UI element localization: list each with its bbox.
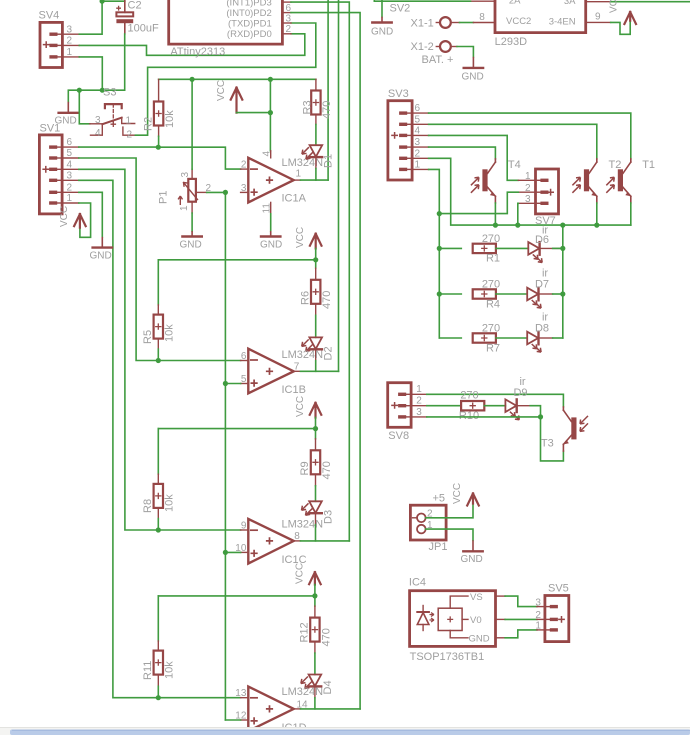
resistor R12 [299, 596, 333, 653]
wire VCC bus B [158, 259, 315, 261]
svg-text:D6: D6 [535, 234, 549, 246]
ground [260, 231, 282, 250]
ground [55, 102, 79, 127]
junction [268, 77, 273, 82]
svg-text:11: 11 [261, 203, 272, 214]
pin L293D 1A [471, 0, 496, 2]
wire p11 gnd [270, 214, 272, 231]
junction [313, 426, 318, 431]
wire row3 left [439, 337, 461, 339]
supply VCC [452, 483, 479, 506]
junction [437, 211, 442, 216]
IC IC4 TSOP1736 [409, 577, 496, 664]
wire R9-D3 [315, 486, 317, 502]
wire T3 emitter loop [541, 417, 564, 461]
svg-text:3: 3 [286, 14, 292, 25]
svg-text:V0: V0 [470, 615, 482, 626]
resistor R5 [142, 260, 176, 349]
wire P1 wiper [207, 191, 226, 193]
wire to IC1C in- [158, 529, 240, 531]
wire d8 join [553, 337, 563, 339]
transistor T2 [572, 159, 621, 203]
resistor R8 [142, 429, 176, 519]
connector JP1 [410, 493, 447, 554]
wire SV4-2 to PD0 [79, 34, 304, 56]
svg-text:4: 4 [261, 151, 272, 157]
pin IC1A p4 [261, 151, 272, 158]
wire VCC bus C [158, 428, 315, 430]
SV1 pin [62, 191, 79, 193]
wire GND to SV5-1 [505, 630, 537, 638]
resistor R3 [302, 79, 334, 124]
SV5 pin [537, 629, 545, 631]
wire D3 out [315, 525, 317, 541]
wire SV3-2 emitter bus [429, 158, 631, 225]
svg-text:2: 2 [127, 130, 133, 141]
SV8 pin [411, 393, 427, 395]
SV1 pin [62, 168, 79, 170]
svg-text:GND: GND [462, 72, 484, 83]
resistor R7 [473, 323, 500, 355]
terminal X1-2 [411, 41, 458, 66]
wire in+ stub [225, 383, 240, 385]
svg-text:270: 270 [482, 279, 500, 291]
ground [180, 231, 202, 250]
svg-text:270: 270 [482, 233, 500, 245]
pin IC1C out [294, 540, 301, 542]
wire T2 emitter [596, 203, 598, 225]
wire SV2 gnd [381, 0, 383, 17]
junction [190, 77, 195, 82]
junction [268, 110, 273, 115]
supply VCC [295, 227, 322, 249]
svg-text:LM324N: LM324N [282, 519, 324, 531]
wire R10-D9 [484, 405, 505, 407]
wire SV3-3 to T4 [429, 147, 496, 159]
SV1 pin [62, 202, 79, 204]
diode D8 [527, 312, 549, 353]
wire D7 cathode [539, 293, 553, 295]
wire in+ stub [225, 551, 240, 553]
wire T4 emitter [494, 203, 496, 225]
junction [156, 145, 161, 150]
connector SV3 [388, 88, 421, 180]
transistor T3 [541, 407, 588, 451]
pin IC1C in- [241, 529, 249, 531]
junction [223, 190, 228, 195]
pin L293D 9 [586, 12, 611, 23]
wire SV4-1 down [79, 57, 102, 90]
wire JP1-1 gnd [426, 529, 473, 540]
SV3 pin [412, 168, 429, 170]
svg-text:T4: T4 [508, 159, 521, 171]
wire R12-D4 [314, 653, 316, 674]
svg-text:VS: VS [470, 592, 483, 603]
wire d6 join [553, 247, 563, 249]
svg-text:1: 1 [179, 205, 190, 211]
svg-text:470: 470 [320, 628, 332, 646]
svg-text:BAT. +: BAT. + [422, 54, 454, 66]
wire vcc stem [314, 585, 316, 596]
wire VCC jog [237, 112, 271, 114]
wire VCC to IC1A pwr [269, 79, 271, 151]
connector SV5 [535, 583, 568, 642]
svg-text:IC4: IC4 [409, 577, 426, 589]
svg-text:SV1: SV1 [40, 123, 61, 135]
svg-text:T1: T1 [642, 159, 655, 171]
bus IC1B out [338, 0, 340, 371]
svg-text:TSOP1736TB1: TSOP1736TB1 [410, 651, 485, 663]
SV1 pin [62, 146, 79, 148]
SV5 pin [537, 606, 545, 608]
supply VCC [59, 206, 86, 228]
svg-text:R2: R2 [143, 117, 155, 131]
wire + bus down [224, 192, 226, 720]
junction [156, 358, 161, 363]
svg-text:C2: C2 [128, 0, 142, 12]
svg-text:JP1: JP1 [429, 541, 448, 553]
svg-text:ATtiny2313: ATtiny2313 [170, 46, 225, 58]
wire PD2 to IC1D bus [291, 13, 360, 709]
svg-text:L293D: L293D [495, 36, 527, 48]
svg-text:D2: D2 [323, 346, 335, 360]
junction [100, 0, 105, 4]
wire R7-D8 [496, 337, 527, 339]
pin IC1A out [294, 179, 301, 181]
wire pin9 vcc [611, 21, 631, 35]
wire VCC bus D [158, 595, 315, 597]
svg-text:R6: R6 [299, 291, 311, 305]
wire D9 to dot [530, 406, 540, 417]
svg-text:3A: 3A [564, 0, 576, 7]
transistor T1 [606, 159, 655, 203]
svg-text:VCC: VCC [452, 483, 463, 504]
pin IC1D out [294, 708, 301, 710]
wire SV1-3 bus [79, 180, 159, 697]
svg-text:10k: 10k [164, 494, 176, 512]
pin IC1B out [294, 370, 301, 372]
svg-text:470: 470 [321, 101, 333, 119]
wire row2 left [439, 293, 461, 295]
wire SV1-1 VCC loop [79, 203, 91, 237]
svg-text:VCC: VCC [295, 227, 306, 248]
pin L293D 3A [586, 1, 611, 3]
resistor R4 [473, 279, 500, 311]
wire vcc stem [315, 418, 317, 429]
wire SV3-6 to T1 [429, 113, 631, 159]
svg-text:LM324N: LM324N [282, 686, 324, 698]
svg-text:IC1A: IC1A [282, 193, 307, 205]
svg-text:T2: T2 [609, 159, 622, 171]
wire d7 join [553, 293, 563, 295]
ground [461, 540, 483, 565]
junction [437, 246, 442, 251]
wire 3A right [611, 1, 690, 3]
wire R2 bottom [158, 136, 160, 147]
wire P1 top [191, 79, 193, 169]
svg-text:D3: D3 [323, 510, 335, 524]
svg-text:T3: T3 [541, 438, 554, 450]
svg-text:X1-2: X1-2 [411, 41, 434, 53]
wire D9 cathode [517, 405, 531, 407]
diode D7 [527, 268, 549, 309]
svg-text:(INT0)PD2: (INT0)PD2 [226, 8, 271, 19]
wire to IC1B in- [158, 360, 240, 362]
transistor T4 [471, 159, 521, 203]
svg-text:R12: R12 [299, 622, 311, 642]
svg-text:VCC: VCC [295, 396, 306, 417]
pin IC4 GND [496, 637, 506, 639]
svg-text:270: 270 [460, 390, 478, 402]
pin IC4 VS [496, 595, 506, 597]
svg-text:LM324N: LM324N [282, 157, 324, 169]
svg-text:VCC: VCC [609, 0, 620, 13]
svg-text:(RXD)PD0: (RXD)PD0 [227, 29, 272, 40]
pin IC1A in- [241, 168, 249, 170]
IC4 internal V0 [462, 615, 482, 626]
svg-text:R9: R9 [299, 461, 311, 475]
IC4 internal VS [450, 592, 482, 608]
wire SV3-4 to SV7-1 [429, 135, 519, 180]
wire X1-1 to pin8 [460, 22, 474, 24]
svg-text:R11: R11 [142, 661, 154, 680]
svg-text:R5: R5 [142, 330, 154, 344]
svg-text:270: 270 [482, 323, 500, 335]
wire S3 net [68, 90, 124, 102]
resistor R10 [461, 401, 484, 410]
svg-text:(TXD)PD1: (TXD)PD1 [228, 18, 272, 29]
junction [437, 291, 442, 296]
terminal X1-1 [411, 17, 460, 29]
SV7 pin [518, 179, 535, 181]
wire SV7-2 [439, 192, 518, 213]
bus IC1A out [327, 0, 329, 180]
svg-text:10k: 10k [164, 661, 176, 679]
svg-text:470: 470 [321, 291, 333, 309]
wire R1-D6 [496, 247, 528, 249]
junction [156, 695, 161, 700]
svg-text:D8: D8 [535, 323, 549, 335]
wire SV8-2 to R10 [427, 405, 461, 407]
wire stub up [101, 0, 103, 1]
photodiode in IC4 [417, 606, 434, 631]
connector SV1 [39, 123, 72, 214]
svg-text:X1-1: X1-1 [411, 17, 434, 29]
wire T1 emitter [630, 203, 632, 225]
svg-text:8: 8 [479, 12, 485, 23]
op-amp IC1C [235, 519, 323, 567]
svg-text:2: 2 [286, 24, 292, 35]
junction [560, 246, 565, 251]
svg-text:SV2: SV2 [390, 3, 411, 15]
wire SV3-5 to T2 [429, 124, 597, 159]
resistor R2 [143, 79, 177, 136]
svg-text:D7: D7 [535, 279, 549, 291]
LED D4 [301, 675, 334, 698]
svg-text:R4: R4 [486, 299, 500, 311]
SV4 pin 1 [62, 56, 79, 58]
junction [223, 550, 228, 555]
switch S3 [90, 87, 136, 141]
svg-text:SV5: SV5 [548, 583, 569, 595]
pin PD3 [282, 1, 291, 3]
pin IC1B in- [241, 360, 249, 362]
supply VCC [295, 396, 321, 418]
SV4 pin 2 [62, 44, 79, 46]
pin L293D 8 [473, 12, 495, 23]
svg-text:R10: R10 [459, 410, 479, 422]
wire VCC bus A [159, 78, 316, 80]
resistor R9 [299, 429, 333, 486]
wire IC1C out [301, 540, 350, 542]
SV1 pin [62, 157, 79, 159]
junction [538, 414, 543, 419]
pin IC1A p11 [261, 202, 272, 213]
svg-text:VCC: VCC [59, 206, 70, 227]
svg-text:D4: D4 [322, 680, 334, 694]
junction [493, 223, 498, 228]
svg-text:3: 3 [180, 172, 191, 178]
svg-text:10k: 10k [164, 110, 176, 128]
svg-text:IC1B: IC1B [282, 384, 306, 396]
wire SV1-2 to GND [79, 192, 103, 237]
wire IC1B out [301, 370, 339, 372]
wire JP1-2 vcc [426, 504, 473, 518]
op-amp IC1D [235, 686, 323, 734]
pin IC1C in+ [241, 551, 249, 553]
wire R6-D2 [315, 315, 317, 337]
LED D1 [302, 145, 335, 168]
pot P1 [158, 169, 212, 213]
wire cathode bus v [562, 225, 564, 338]
wire R3-D1 [315, 125, 317, 146]
SV7 pin [518, 191, 535, 193]
svg-text:R7: R7 [486, 343, 500, 355]
pin PD1 [282, 14, 291, 25]
svg-text:4: 4 [95, 128, 101, 139]
wire SV1-5 bus [79, 158, 159, 361]
wire to S3 pin3 [79, 90, 90, 124]
wire D1 out [315, 169, 317, 181]
svg-text:3: 3 [95, 115, 101, 126]
SV8 pin [411, 405, 427, 407]
wire row1 left [439, 247, 461, 249]
junction [515, 223, 520, 228]
junction [100, 88, 105, 93]
svg-text:VCC: VCC [216, 80, 227, 101]
pin PD0 [282, 24, 291, 35]
supply VCC [216, 80, 242, 113]
connector SV8 [388, 383, 423, 442]
wire 1A to SV2 [374, 0, 470, 1]
resistor R11 [142, 596, 176, 686]
connector SV7 [525, 169, 558, 227]
SV3 pin [412, 146, 429, 148]
svg-text:R3: R3 [302, 100, 314, 114]
svg-text:10k: 10k [164, 324, 176, 342]
supply VCC [609, 0, 637, 24]
IC ATtiny2313 [169, 0, 283, 58]
svg-text:R1: R1 [486, 253, 500, 265]
wire SV1-4 bus [79, 169, 159, 530]
wire D6 cathode [540, 247, 563, 249]
SV8 pin [411, 416, 427, 418]
svg-text:100uF: 100uF [128, 23, 159, 35]
svg-text:VCC: VCC [294, 563, 305, 584]
supply VCC [294, 563, 320, 585]
junction [156, 527, 161, 532]
svg-text:2A: 2A [509, 0, 521, 6]
SV5 pin [537, 618, 545, 620]
wire D8 cathode [539, 337, 553, 339]
wire V0 to SV5-2 [505, 618, 537, 620]
svg-text:9: 9 [595, 12, 601, 23]
wire R5 bottom [157, 349, 159, 360]
SV4 pin 3 [62, 33, 79, 35]
IC L293D [495, 0, 586, 48]
IC4 internal GND [450, 631, 490, 645]
pin IC1D in- [241, 697, 249, 699]
junction [312, 593, 317, 598]
wire IC1D out [301, 708, 361, 710]
svg-text:R8: R8 [142, 499, 154, 513]
ground [90, 237, 113, 262]
junction [560, 291, 565, 296]
connector SV4 [39, 10, 73, 68]
diode D9 [505, 376, 527, 420]
pin IC1D in+ [241, 719, 249, 721]
junction [594, 223, 599, 228]
wire R8 bottom [157, 519, 159, 530]
svg-text:GND: GND [371, 27, 393, 38]
svg-text:+5: +5 [433, 493, 446, 505]
wire SV8-1 to T3 [427, 394, 564, 407]
junction [313, 257, 318, 262]
wire D2 out [315, 361, 317, 372]
wire IC1A out [301, 179, 329, 181]
resistor R1 [473, 233, 500, 265]
diode D6 [528, 225, 549, 263]
svg-text:S3: S3 [103, 87, 116, 99]
junction [223, 381, 228, 386]
svg-text:SV4: SV4 [39, 10, 60, 22]
svg-text:GND: GND [180, 240, 202, 251]
wire SV8-3 [427, 416, 541, 418]
labels R10 [459, 390, 479, 422]
wire S3-2 to PD1 [135, 23, 315, 135]
wire VS to SV5-3 [505, 596, 537, 607]
svg-text:GND: GND [469, 633, 490, 644]
wire to IC1D in- [158, 697, 240, 699]
pin PD2 [282, 3, 291, 14]
LED D2 [302, 337, 335, 360]
svg-text:GND: GND [260, 240, 282, 251]
wire R11 bottom [157, 686, 159, 697]
resistor R6 [299, 260, 333, 316]
svg-text:GND: GND [90, 251, 112, 262]
wire R4-D7 [496, 293, 527, 295]
wire P1 gnd [191, 213, 193, 231]
wire PD3 to IC1C bus [291, 2, 349, 541]
wire SV7-3 [517, 203, 520, 225]
wire SV3-1 cathode bus [429, 169, 440, 338]
wire to IC1A in- [158, 147, 240, 169]
svg-text:VCC2: VCC2 [506, 16, 531, 27]
pin IC4 V0 [496, 618, 506, 620]
svg-text:P1: P1 [158, 191, 170, 204]
ground [371, 3, 410, 38]
svg-text:SV3: SV3 [388, 88, 409, 100]
